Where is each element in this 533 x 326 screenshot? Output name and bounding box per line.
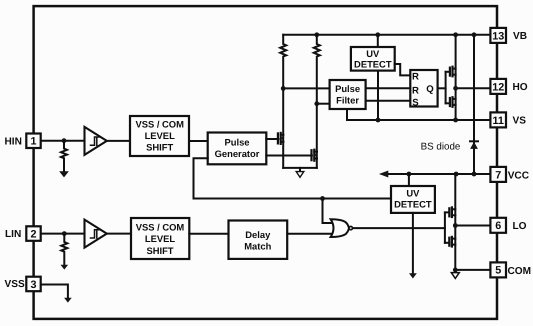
block UV DETECT (high side) <box>351 47 395 71</box>
pin 3 <box>26 277 40 292</box>
wire level shift sources common <box>283 167 317 169</box>
svg-text:SHIFT: SHIFT <box>146 141 173 152</box>
svg-text:Match: Match <box>244 240 271 251</box>
svg-text:Pulse: Pulse <box>335 83 360 94</box>
svg-text:COM: COM <box>508 266 532 277</box>
svg-text:BS diode: BS diode <box>421 142 461 153</box>
svg-text:2: 2 <box>30 228 36 240</box>
svg-text:VCC: VCC <box>508 170 530 181</box>
svg-text:UV: UV <box>406 188 420 199</box>
svg-text:VSS: VSS <box>5 279 25 290</box>
pin 2 <box>26 226 40 241</box>
svg-text:VSS / COM: VSS / COM <box>136 221 185 232</box>
block Delay Match <box>229 221 288 259</box>
wire levelshift1 to pulse generator <box>189 140 208 142</box>
node VB-diode <box>472 32 477 37</box>
resistor R1 (level shift load left) <box>280 35 286 89</box>
svg-text:11: 11 <box>492 115 503 127</box>
svg-text:Generator: Generator <box>215 148 260 159</box>
pin 12 <box>490 79 506 94</box>
transistor Q1/Q2 HO totem pole <box>446 67 456 107</box>
pin 7 <box>490 167 506 182</box>
arrow VCC feed (left) <box>379 171 388 178</box>
svg-text:LEVEL: LEVEL <box>145 130 175 141</box>
svg-text:7: 7 <box>495 169 501 181</box>
wire NOR output to LO gates <box>353 227 445 229</box>
resistor R2 (level shift load right) <box>314 35 320 104</box>
svg-text:13: 13 <box>492 30 504 42</box>
wire R1 leg down to M1 <box>282 88 284 167</box>
node LO out <box>453 223 458 228</box>
block VSS/COM LEVEL SHIFT (low side) <box>131 218 189 259</box>
svg-text:DETECT: DETECT <box>394 199 432 210</box>
block Pulse Generator <box>208 133 267 165</box>
wire LO output <box>455 225 490 227</box>
ground VSS arrow (pin3) <box>64 298 72 303</box>
svg-text:5: 5 <box>495 265 501 277</box>
svg-text:Filter: Filter <box>336 94 359 105</box>
wire buffer2 to level shift2 <box>107 233 131 235</box>
schmitt symbol <box>91 230 100 238</box>
svg-text:12: 12 <box>492 81 504 93</box>
node VB-R2 <box>314 32 319 37</box>
wire COM to pin5 <box>455 269 490 271</box>
svg-text:Pulse: Pulse <box>224 137 249 148</box>
resistor R-LIN pulldown <box>61 234 67 265</box>
pin 5 <box>490 262 506 277</box>
svg-text:VSS / COM: VSS / COM <box>135 119 184 130</box>
node R2 tap <box>314 101 319 106</box>
op-amp buffer U1 (HIN schmitt) <box>85 127 107 155</box>
wire pulse filter out2 to latch S <box>366 100 411 102</box>
wire R2 tap to pulse filter input2 <box>317 103 330 105</box>
op-amp buffer U3 (LIN schmitt) <box>85 220 107 248</box>
svg-text:LEVEL: LEVEL <box>145 233 175 244</box>
pin 11 <box>490 112 506 127</box>
wire HIN pin1 to buffer <box>41 140 85 142</box>
schmitt symbol <box>91 137 100 145</box>
wire VCC to UV2 <box>408 174 410 186</box>
svg-text:LO: LO <box>513 221 527 232</box>
resistor R-HIN pulldown <box>61 141 67 172</box>
block VSS/COM LEVEL SHIFT (high side) <box>130 116 189 156</box>
latch U2 RS <box>410 70 437 107</box>
svg-text:Delay: Delay <box>245 229 271 240</box>
svg-text:UV: UV <box>366 48 380 59</box>
svg-text:1: 1 <box>30 136 36 148</box>
svg-text:HIN: HIN <box>5 137 22 148</box>
node VCC-UV2 <box>407 172 412 177</box>
node R1 tap <box>281 86 286 91</box>
node HIN junction <box>62 138 67 143</box>
wire pulse filter bottom to VS <box>346 109 348 120</box>
diode BS (bootstrap) <box>473 35 475 174</box>
pin 13 <box>490 28 506 43</box>
svg-text:SHIFT: SHIFT <box>146 245 173 256</box>
wire shutdown to NOR input <box>323 199 335 224</box>
block UV DETECT (low side) <box>391 186 435 213</box>
wire LIN pin2 to buffer <box>41 233 85 235</box>
wire VB to UV1 <box>377 35 379 47</box>
ground VSS arrow (UV2) <box>409 273 417 278</box>
pin 6 <box>490 218 506 233</box>
wire UV2 to ground <box>412 213 414 273</box>
svg-text:S: S <box>412 98 419 109</box>
wire UV2 output to pulse generator (shutdown) <box>194 158 392 198</box>
wire VB rail <box>283 34 490 36</box>
transistor M2 (level shift right) <box>312 150 318 161</box>
svg-text:R: R <box>412 85 419 96</box>
wire levelshift2 to delay match <box>189 233 228 235</box>
wire R1 tap to pulse filter input1 <box>283 87 329 89</box>
wire pulsegen out1 to M1 gate <box>266 138 278 140</box>
node VB-HOfet <box>453 32 458 37</box>
svg-text:VB: VB <box>513 31 527 42</box>
node VS-HOfet <box>453 118 458 123</box>
node VS-UV1 <box>376 118 381 123</box>
wire buffer1 to level shift <box>107 140 130 142</box>
wire pulsegen out2 to M2 gate <box>266 155 312 157</box>
svg-text:3: 3 <box>30 279 36 291</box>
svg-text:HO: HO <box>513 82 528 93</box>
ground VSS arrow (HIN) <box>60 172 68 177</box>
svg-text:Q: Q <box>426 84 434 95</box>
transistor M1 (level shift left) <box>278 133 284 144</box>
svg-text:LIN: LIN <box>5 229 21 240</box>
wire HO rail <box>455 35 457 120</box>
svg-text:VS: VS <box>513 116 527 127</box>
node LIN junction <box>62 231 67 236</box>
wire delay match to NOR <box>287 233 334 235</box>
wire HO output <box>456 87 491 89</box>
svg-text:R: R <box>412 71 419 82</box>
wire UV1 bottom to VS <box>377 71 379 120</box>
svg-text:DETECT: DETECT <box>354 59 392 70</box>
pin 1 <box>26 134 40 149</box>
block Pulse Filter <box>330 80 366 109</box>
ground COM arrow (open) <box>454 270 456 273</box>
node COM junction <box>453 268 458 273</box>
wire VCC rail with arrow <box>386 173 490 175</box>
svg-text:6: 6 <box>495 220 501 232</box>
wire VS rail <box>347 119 491 121</box>
wire pulse filter out1 to latch R2 <box>366 87 411 89</box>
wire LO rail <box>454 174 456 270</box>
node VCC-diode <box>472 172 477 177</box>
wire latch Q to HO gates <box>438 87 446 89</box>
wire UV1 to latch R1 <box>395 64 411 75</box>
node VB-UV1 <box>375 32 380 37</box>
wire R2 leg down to M2 <box>316 104 318 168</box>
transistor Q3/Q4 LO totem pole <box>445 207 455 246</box>
node VCC-LOfet <box>454 172 459 177</box>
wire VSS pin3 to ground <box>38 285 68 298</box>
gate NOR U4 <box>331 219 349 237</box>
ground VS arrow (open, level shift) <box>299 168 301 172</box>
node shutdown junction <box>320 196 325 201</box>
node HO out <box>453 86 458 91</box>
ground VSS arrow (LIN) <box>61 265 69 270</box>
